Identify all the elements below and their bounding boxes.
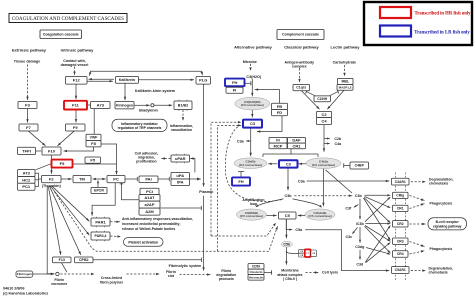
wire bradykinin to B1/B2 — [154, 104, 172, 106]
svg-text:F2: F2 — [49, 176, 54, 181]
svg-text:DAF: DAF — [292, 138, 301, 143]
header Lectin pathway — [331, 44, 361, 49]
svg-text:(c) Kanehisa Laboratories: (c) Kanehisa Laboratories — [3, 292, 48, 296]
svg-text:MBL: MBL — [341, 80, 349, 84]
gene F2 — [42, 176, 62, 183]
wire branch to C4a — [324, 142, 330, 144]
wire CR2 to bcell dashed — [410, 223, 426, 225]
svg-text:F7: F7 — [26, 125, 31, 130]
svg-text:F8: F8 — [91, 141, 96, 146]
legend blue box Transcribed in LR fish only — [380, 26, 470, 37]
svg-text:uPA: uPA — [176, 173, 184, 178]
gene MBL — [338, 78, 354, 84]
gene C4BP — [350, 162, 369, 169]
gene C4 — [317, 118, 332, 125]
gene A73 — [91, 102, 111, 109]
svg-text:loop: loop — [250, 202, 257, 206]
svg-text:Vitronectin: Vitronectin — [249, 275, 264, 279]
svg-text:proliferation: proliferation — [136, 159, 156, 163]
svg-text:Kininogen: Kininogen — [116, 103, 133, 107]
svg-text:C5AR1: C5AR1 — [395, 268, 406, 272]
svg-text:(C3 convertase): (C3 convertase) — [241, 103, 264, 107]
gene PLG — [196, 77, 211, 85]
svg-text:CR2: CR2 — [397, 222, 404, 226]
gene CPB2 — [75, 257, 94, 263]
svg-text:chemotaxis: chemotaxis — [429, 270, 448, 274]
gene FI — [226, 87, 243, 93]
wire C3(H2O)Bb to C3 — [251, 110, 253, 118]
gene C9 — [311, 250, 317, 257]
wire C4b diagonal — [326, 170, 353, 193]
wire AT3 diag to F10-F2 line — [36, 164, 51, 170]
svg-text:MASP1,2: MASP1,2 — [339, 85, 352, 89]
svg-text:Lectin pathway: Lectin pathway — [331, 44, 361, 49]
wire PC to PAR1 — [91, 183, 115, 216]
gene A1AT — [139, 195, 160, 202]
svg-text:F5: F5 — [60, 161, 65, 166]
svg-text:Kallikrein: Kallikrein — [119, 78, 136, 82]
wire serpin bracket vertical — [38, 173, 40, 186]
svg-text:A1AT: A1AT — [144, 195, 155, 200]
svg-text:PAR1: PAR1 — [95, 219, 106, 224]
complex C3bBb C3 convertase — [234, 158, 267, 169]
wire EPCR to TM-PC line — [97, 180, 99, 187]
wire FB FD upper elbow — [255, 88, 280, 103]
svg-text:Classical pathway: Classical pathway — [284, 44, 319, 49]
svg-text:(C5 convertase): (C5 convertase) — [240, 214, 263, 218]
gene C3 (blue LR) middle — [279, 160, 298, 167]
svg-text:MCP: MCP — [274, 143, 283, 148]
gene a2AP — [139, 201, 160, 208]
title box COAGULATION AND COMPLEMENT CASCADES — [9, 14, 127, 23]
gene C6 — [299, 249, 305, 253]
wire a2AP A2M inhibit plasmin — [160, 206, 201, 210]
svg-text:Tissue damage: Tissue damage — [14, 59, 41, 63]
label Cell adhesion migration proliferation — [135, 151, 159, 163]
svg-text:PC: PC — [113, 176, 119, 181]
svg-text:fibrin polymer: fibrin polymer — [100, 280, 124, 284]
svg-text:C1INH: C1INH — [317, 97, 328, 101]
wire fibrin monomer to crosslinked dashed — [60, 273, 94, 275]
svg-text:CRIg: CRIg — [396, 194, 404, 198]
wire kininogen to bradykinin circle — [134, 104, 150, 106]
wire C3a to C3AR1 — [307, 180, 390, 182]
wire plasmin dashed to C3 — [218, 124, 242, 251]
node bradykinin circle — [151, 104, 154, 107]
wire F13 to fibrin line — [62, 263, 68, 272]
wire FH2 inhibits C3bBb — [240, 171, 242, 177]
svg-text:FB: FB — [277, 104, 282, 109]
wire C4 to C4b2a — [323, 125, 325, 152]
label Bradykinin — [139, 108, 158, 112]
svg-text:CR1: CR1 — [292, 143, 301, 148]
svg-text:F5: F5 — [90, 157, 95, 162]
svg-text:F9: F9 — [73, 125, 78, 130]
wire TFPI inhibits F10 — [36, 150, 42, 152]
wire C3 to C3bBb — [250, 128, 252, 157]
svg-text:complex: complex — [292, 64, 307, 68]
svg-text:iC3b: iC3b — [356, 222, 365, 226]
wire F8 elbow to F10 — [64, 147, 94, 152]
compound C5b — [281, 241, 292, 247]
wire iC3b to CR4 — [365, 226, 391, 253]
svg-text:F3: F3 — [25, 102, 30, 107]
label C3b right — [355, 194, 363, 198]
gene C7 (red HR) — [305, 249, 311, 257]
gene FH2 (blue LR) — [232, 177, 250, 185]
gene C1qrs — [293, 84, 310, 90]
gene EPCR — [91, 187, 107, 193]
wire F12-kallikrein upper — [89, 78, 115, 80]
svg-text:products: products — [219, 277, 234, 281]
label Fibrinolytic system — [169, 264, 202, 268]
wire F3 to F7 — [26, 109, 28, 123]
gene CD59 — [248, 264, 264, 270]
wire C3b to CR2 — [364, 198, 390, 223]
gene FH (blue LR) — [225, 79, 245, 87]
svg-text:PAI: PAI — [145, 177, 151, 182]
svg-text:PAR3,4: PAR3,4 — [95, 234, 107, 238]
gene Kininogen — [115, 102, 134, 109]
svg-text:C3AR1: C3AR1 — [395, 180, 406, 184]
gene FB — [272, 103, 288, 109]
svg-text:CR1: CR1 — [397, 207, 404, 211]
wire uPAR to cell adhesion dashed — [162, 157, 171, 159]
wire thrombin dashed long to C5 — [55, 192, 278, 251]
wire C5b branch to C6789 — [286, 251, 298, 253]
label Phagocytosis lower — [430, 247, 453, 251]
label Degranulation chemotaxis lower — [429, 266, 454, 274]
complement cascade box — [277, 30, 324, 40]
wire crosslinked to fibrin clot dashed — [127, 273, 160, 275]
wire B1/B2 to inflammation dashed — [182, 110, 184, 121]
svg-text:F13: F13 — [59, 258, 65, 262]
coagulation cascade box — [40, 30, 82, 39]
svg-text:damaged vessel: damaged vessel — [61, 63, 89, 67]
gene F8 — [86, 141, 101, 147]
label Carbohydrate — [333, 60, 356, 64]
wire convertase left into C5 — [266, 214, 276, 216]
label Kallikrein-kinin system — [135, 89, 176, 93]
svg-text:FI: FI — [276, 138, 280, 143]
complex C3(H2O)Bb C3 convertase — [235, 97, 270, 110]
gene TM — [73, 176, 91, 183]
wire carbohydrate to MBL dashed — [343, 65, 345, 76]
wire C1INH inhibits MASP — [330, 90, 340, 96]
wire tissue damage to F3 dashed — [26, 65, 28, 101]
wire regulator bar tick right — [317, 154, 319, 157]
wire C4b2a to C4b2a3b — [322, 168, 324, 206]
label Tissue damage — [14, 59, 41, 63]
wire A1AT elbow to PC — [121, 183, 138, 200]
node fibrin monomer circle — [56, 272, 59, 275]
wire uPA/tPA to plasmin line — [189, 178, 201, 181]
svg-text:F10: F10 — [48, 148, 56, 153]
wire PC1 stub — [35, 185, 38, 187]
svg-text:A73: A73 — [97, 102, 105, 107]
wire CD59 inhibits MAC — [264, 270, 271, 274]
svg-text:FI: FI — [233, 88, 237, 93]
wire F2 to PAR3,4 — [51, 186, 90, 235]
wire F10 to F2 — [50, 155, 52, 174]
svg-text:FD: FD — [277, 110, 282, 115]
svg-text:regulation of TRP channels: regulation of TRP channels — [118, 126, 162, 130]
header Classical pathway — [284, 44, 319, 49]
svg-text:(C3 convertase): (C3 convertase) — [312, 163, 335, 167]
wire FH2 bar — [238, 170, 244, 172]
svg-text:C3a: C3a — [298, 179, 306, 183]
svg-text:VWF: VWF — [90, 136, 99, 140]
label Antigen-antibody complex — [285, 60, 315, 68]
wire C5AR1 annotation dashed — [411, 269, 426, 271]
label C3a left — [237, 139, 245, 143]
label Amplification loop — [242, 198, 264, 206]
wire regulator bar tick left — [262, 154, 264, 157]
wire PAR1 to anti-inflammatory dashed — [110, 221, 120, 223]
svg-text:EPCR: EPCR — [94, 189, 104, 193]
wire kallikrein to kininogen — [124, 83, 126, 100]
wire F7 to F10 — [29, 131, 46, 146]
wire A1AT tick at PC — [120, 183, 124, 185]
gene CRIg — [393, 192, 409, 198]
gene F13 — [53, 257, 72, 263]
wire C3 to C3b — [287, 168, 289, 190]
gene MCP — [269, 143, 287, 149]
wire C4b2a into C3 box — [299, 163, 307, 165]
wire CRIg to phagocytosis dashed — [410, 196, 425, 201]
label Fibrin monomer — [51, 278, 68, 286]
svg-text:COAGULATION AND COMPLEMENT CAS: COAGULATION AND COMPLEMENT CASCADES — [12, 17, 124, 22]
svg-text:Alternative pathway: Alternative pathway — [234, 44, 273, 49]
gene PAI — [139, 176, 158, 183]
svg-text:release of Weibel-Palade bodie: release of Weibel-Palade bodies — [122, 227, 175, 231]
gene CR3 receptor — [393, 238, 409, 244]
ticks PAR3,4 receptor — [96, 231, 104, 242]
svg-text:C3b: C3b — [355, 194, 363, 198]
gene Vitronectin — [248, 275, 264, 281]
svg-text:Anti-inflammatory responses;va: Anti-inflammatory responses;vasodilation… — [122, 217, 193, 221]
wire branch to C2b — [324, 137, 330, 139]
svg-text:Kallikrein-kinin system: Kallikrein-kinin system — [135, 89, 176, 93]
wire C1INH inhibits C1qrs — [306, 90, 316, 96]
wire F12-kallikrein lower — [87, 80, 113, 82]
svg-text:A2M: A2M — [145, 209, 154, 214]
wire convertase right into C5 — [298, 214, 306, 216]
svg-text:B1/B2: B1/B2 — [178, 104, 188, 108]
gene B1/B2 receptor — [174, 101, 192, 110]
wire regulator bar connector — [290, 149, 292, 154]
wire A73 inhibits F11 — [87, 104, 90, 106]
svg-text:PLG: PLG — [199, 78, 207, 83]
svg-text:FH: FH — [238, 179, 243, 184]
gene FI regulator — [269, 137, 287, 143]
rounded box Inflammatory mediator regulation of TRP channels — [112, 119, 167, 131]
svg-text:Complement cascade: Complement cascade — [282, 33, 319, 37]
gene C3AR1 — [392, 178, 410, 185]
label C3c — [346, 235, 353, 239]
svg-text:C5a: C5a — [295, 228, 303, 232]
gene PC1 — [18, 183, 36, 190]
svg-text:( C5b-9 ): ( C5b-9 ) — [283, 277, 297, 281]
svg-text:CR3: CR3 — [397, 239, 404, 243]
wire PC inhibits PAI — [125, 177, 137, 181]
label Anti-inflammatory responses — [122, 217, 193, 231]
svg-text:Fibrinolytic system: Fibrinolytic system — [169, 264, 202, 268]
wire C3AR1 annotation dashed — [411, 181, 426, 183]
complex C3bBb3b C5 convertase — [237, 209, 267, 220]
wire C3b to C5convertase left — [256, 199, 284, 207]
wire iC3b to CR2 — [366, 222, 391, 224]
wire C3 into C3bBb ellipse — [268, 163, 277, 165]
wire FH inhibits line — [244, 81, 251, 85]
svg-text:Clusterin: Clusterin — [249, 270, 262, 274]
wire PAI inhibits uPA/tPA — [158, 177, 169, 181]
label Fibrin degradation products — [216, 269, 236, 281]
svg-text:Microbe: Microbe — [243, 60, 257, 64]
label C5a — [295, 228, 303, 232]
svg-text:signaling pathway: signaling pathway — [433, 224, 462, 228]
gene F3 — [18, 102, 37, 109]
wire iC3b to C3dg — [359, 227, 361, 243]
svg-text:Platelet activation: Platelet activation — [128, 240, 158, 244]
gene C3 (blue LR) upper — [243, 120, 262, 128]
gene FD — [272, 110, 288, 116]
wire iC3b to C3c — [352, 228, 357, 234]
gene VWF — [86, 134, 101, 140]
svg-text:C5b: C5b — [283, 242, 291, 246]
wire F12 to F11 — [75, 84, 77, 99]
label C3b under C3 — [285, 194, 293, 198]
gene DAF — [288, 137, 306, 143]
svg-text:C5: C5 — [285, 213, 291, 218]
wire F2 to TM — [61, 178, 71, 180]
label iC3b — [356, 222, 365, 226]
wire C3d to CR2 — [366, 226, 391, 263]
gene F7 — [19, 124, 38, 131]
svg-text:vasodilation: vasodilation — [171, 128, 192, 132]
gene F9 — [66, 124, 86, 131]
svg-text:Phagocytosis: Phagocytosis — [430, 201, 453, 205]
gene uPA — [171, 172, 190, 179]
gene A2M — [139, 208, 160, 215]
wire contact to F12 dashed — [73, 67, 75, 76]
wire FB FD lower elbow — [257, 116, 282, 133]
gene uPAR — [171, 155, 190, 162]
wire C1qrs to C2C4 — [302, 91, 320, 110]
wire C5b to MAC — [285, 247, 287, 264]
wire CPB2 inhibits fibrinolysis — [93, 258, 202, 262]
wire fibrinogen to circle — [33, 273, 55, 275]
gene C8 — [299, 253, 305, 257]
svg-text:C1qrs: C1qrs — [296, 86, 306, 90]
wire iC3b to CRIg — [365, 197, 390, 222]
wire fibrin clot to degradation dashed — [180, 273, 211, 275]
wire F2 to CPB2 — [50, 186, 81, 255]
svg-text:Transcribed in HR fish only: Transcribed in HR fish only — [415, 11, 472, 16]
wire C3b to C5convertase right — [293, 199, 322, 207]
gene CR1 regulator — [288, 143, 306, 149]
label C3d — [356, 262, 363, 266]
svg-text:Plasmin: Plasmin — [199, 190, 214, 194]
compound Fibrinogen — [16, 271, 33, 277]
svg-text:C3: C3 — [250, 121, 256, 126]
gene HC2 — [18, 177, 36, 184]
svg-text:Intrinsic pathway: Intrinsic pathway — [61, 47, 94, 52]
svg-text:(C5 convertase): (C5 convertase) — [308, 214, 331, 218]
gene Clusterin — [248, 269, 264, 275]
svg-text:Cell lysis: Cell lysis — [322, 271, 338, 275]
wire PAR3,4 to platelet activation dashed — [110, 235, 121, 237]
wire C3(H2O) to convertase — [251, 79, 253, 97]
gene tPA — [171, 179, 190, 186]
label (Thrombin) — [42, 184, 62, 188]
wire uPA up to uPAR — [190, 157, 195, 172]
gene Kallikrein — [116, 77, 139, 84]
wire F8 elbow to PC top — [101, 144, 118, 174]
label Degranulation chemotaxis upper — [429, 177, 454, 185]
wire AgAb to C1qrs dashed — [298, 68, 300, 82]
footer map number — [3, 286, 25, 290]
wire C3b to CRIg — [365, 194, 391, 196]
svg-text:AT3: AT3 — [23, 170, 31, 175]
wire HC2 stub — [35, 179, 38, 181]
ticks uPAR receptor — [176, 154, 184, 164]
wire branch to C3a — [246, 140, 251, 142]
wire C5 branch to C5a — [286, 219, 292, 230]
label C3(H2O) — [246, 75, 262, 79]
wire C5a to C5AR1 — [305, 230, 389, 272]
wire regulator bar — [263, 153, 318, 155]
svg-text:F11: F11 — [72, 103, 79, 108]
svg-text:increased endothelial permeabi: increased endothelial permeability; — [122, 222, 181, 226]
svg-text:a2AP: a2AP — [144, 202, 154, 207]
wire plasmin feedback loop F12-PLG — [89, 71, 203, 76]
wire C4BP inhibits C4b2a — [344, 163, 350, 167]
label C3f — [345, 206, 352, 210]
svg-text:C3: C3 — [286, 161, 292, 166]
rounded box B-cell receptor signaling pathway — [428, 218, 467, 230]
wire MASP to C2C4 — [327, 90, 344, 109]
svg-text:PCI: PCI — [146, 189, 153, 194]
label Cell lysis — [322, 271, 338, 275]
svg-text:C3b: C3b — [285, 194, 293, 198]
gene F11 (red HR) — [64, 101, 87, 110]
wire C3b to CR1 — [365, 197, 391, 208]
wire CR4 to phagocytosis2 dashed — [410, 250, 425, 254]
ticks PAR1 receptor — [96, 217, 104, 228]
label Contact with damaged vessel — [61, 59, 89, 67]
label C3a right — [298, 179, 306, 183]
wire F2 to fibrinogen circle — [47, 186, 54, 275]
gene CR1 receptor — [393, 205, 409, 211]
wire C3dg to C3d — [359, 250, 361, 260]
gene F5 (red HR) — [52, 160, 73, 168]
gene C1INH — [314, 96, 331, 102]
svg-text:PC1: PC1 — [22, 184, 31, 189]
header Extrinsic pathway — [12, 47, 47, 52]
gene F10 — [42, 147, 61, 155]
svg-text:(C3 convertase): (C3 convertase) — [239, 163, 262, 167]
svg-text:CR4: CR4 — [397, 252, 404, 256]
svg-text:C4a: C4a — [335, 142, 343, 146]
svg-text:F12: F12 — [73, 78, 81, 83]
wire serpins inhibit F2 — [39, 178, 42, 180]
wire C3b to CR3 — [364, 198, 391, 240]
wire PLG to plasmin — [202, 84, 204, 186]
svg-text:uPAR: uPAR — [175, 156, 186, 161]
svg-text:tPA: tPA — [177, 180, 184, 185]
membrane dashed line left — [395, 173, 397, 282]
